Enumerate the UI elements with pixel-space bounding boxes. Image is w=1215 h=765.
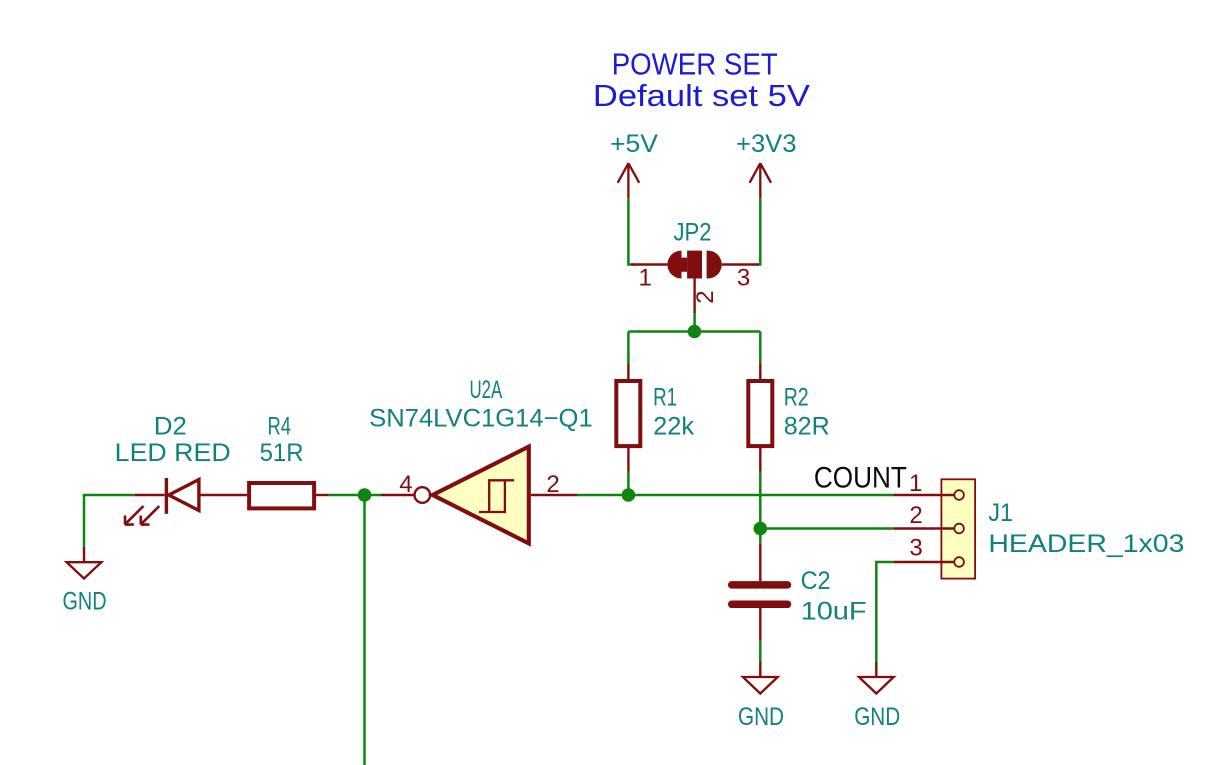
svg-text:U2A: U2A — [470, 376, 503, 404]
svg-text:J1: J1 — [988, 499, 1013, 527]
svg-text:D2: D2 — [154, 413, 187, 441]
svg-text:4: 4 — [399, 471, 412, 498]
solder jumper JP2 — [631, 250, 759, 313]
power symbol +5V — [618, 163, 640, 198]
wire down to R2 — [759, 332, 762, 364]
wire down to R1 — [627, 332, 630, 364]
wire JP2 pin2 to junction — [693, 313, 696, 331]
svg-text:51R: 51R — [260, 439, 304, 467]
resistor R2 — [748, 364, 772, 472]
power symbol +3V3 — [750, 163, 771, 198]
wire junction down to C2 — [759, 529, 762, 544]
ground GND under C2 — [743, 662, 778, 694]
wire R2 bottom down to pin2 net — [759, 472, 762, 529]
svg-text:GND: GND — [63, 588, 107, 616]
svg-text:R4: R4 — [268, 413, 292, 441]
wire main net to J1 pin1 — [628, 494, 893, 497]
svg-text:LED RED: LED RED — [115, 439, 231, 467]
svg-text:R2: R2 — [784, 383, 809, 411]
svg-text:HEADER_1x03: HEADER_1x03 — [988, 530, 1184, 558]
connector J1 — [893, 479, 975, 578]
wire inverter output to junction — [577, 494, 628, 497]
junction at R1 bottom — [622, 488, 636, 502]
svg-text:1: 1 — [909, 470, 922, 497]
svg-text:3: 3 — [909, 535, 922, 562]
ground GND right — [859, 662, 894, 694]
wire +3V3 down to JP2 pin3 — [757, 198, 760, 264]
svg-text:GND: GND — [738, 703, 784, 731]
wire R4 to inverter input — [329, 494, 381, 497]
svg-text:22k: 22k — [653, 413, 695, 441]
ground GND left — [67, 547, 102, 579]
svg-text:10uF: 10uF — [801, 598, 867, 626]
svg-text:82R: 82R — [784, 413, 830, 441]
resistor R1 — [616, 364, 640, 472]
wire main net left segment — [84, 495, 134, 547]
svg-text:2: 2 — [546, 471, 559, 498]
op-amp U2A schmitt inverter — [381, 447, 577, 544]
wire down from junction to bottom edge — [363, 495, 366, 765]
svg-text:2: 2 — [909, 502, 922, 529]
svg-text:1: 1 — [639, 265, 652, 292]
LED D2 — [125, 478, 247, 525]
svg-text:Default set 5V: Default set 5V — [593, 78, 810, 113]
svg-text:+5V: +5V — [610, 130, 658, 158]
junction at node below R4 — [358, 488, 372, 502]
svg-text:+3V3: +3V3 — [736, 130, 797, 158]
wire horizontal bus below JP2 — [628, 330, 760, 333]
svg-text:2: 2 — [692, 290, 719, 303]
wire J1 pin3 to ground — [876, 562, 894, 662]
svg-text:C2: C2 — [801, 567, 831, 595]
junction at R2 bottom net — [754, 522, 768, 536]
svg-text:3: 3 — [737, 265, 750, 292]
wire +5V down to JP2 pin1 — [628, 198, 633, 264]
svg-text:SN74LVC1G14−Q1: SN74LVC1G14−Q1 — [369, 404, 593, 432]
capacitor C2 — [732, 544, 788, 641]
wire junction to J1 pin2 — [760, 527, 893, 530]
svg-text:POWER SET: POWER SET — [612, 47, 778, 82]
wire C2 bottom to ground — [759, 641, 762, 662]
junction below JP2 — [688, 325, 702, 339]
svg-text:COUNT: COUNT — [814, 462, 907, 495]
wire R1 bottom to main net — [627, 472, 630, 496]
svg-text:R1: R1 — [653, 383, 677, 411]
svg-text:JP2: JP2 — [674, 218, 712, 246]
svg-text:GND: GND — [854, 703, 900, 731]
resistor R4 — [249, 483, 329, 508]
